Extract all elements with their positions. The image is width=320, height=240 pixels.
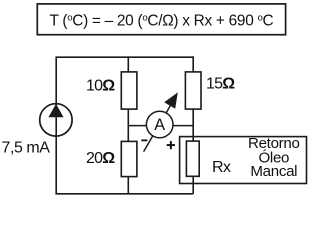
label 20 ohm (86, 150, 115, 167)
wire ammeter left (128, 125, 148, 127)
svg-text:T (oC) = – 20 (oC/Ω) x Rx + 69: T (oC) = – 20 (oC/Ω) x Rx + 690 oC (50, 12, 274, 29)
resistor 20 ohm (121, 141, 137, 176)
svg-text:Mancal: Mancal (250, 163, 297, 180)
label 15 ohm (206, 76, 235, 93)
resistor 15 ohm (185, 72, 201, 109)
polarity minus (141, 139, 147, 141)
resistor Rx (186, 141, 199, 176)
label Retorno Oleo Mancal (248, 135, 300, 180)
svg-text:10Ω: 10Ω (86, 78, 115, 95)
ammeter A1 (146, 111, 173, 138)
ammeter needle arrowhead (164, 92, 178, 108)
resistor 10 ohm (121, 72, 137, 109)
ammeter needle (144, 105, 171, 152)
svg-text:A: A (154, 116, 165, 134)
wire left branch (127, 56, 129, 193)
wire outer loop (top, left, bottom) (56, 57, 193, 194)
formula box (37, 4, 285, 35)
label Rx (212, 159, 231, 176)
current source I1 7,5 mA (40, 104, 72, 136)
svg-text:20Ω: 20Ω (86, 150, 115, 167)
wire right branch (192, 56, 194, 193)
wire ammeter right (172, 125, 194, 127)
box Retorno Oleo Mancal (180, 137, 307, 184)
svg-text:Rx: Rx (212, 159, 231, 176)
polarity plus (167, 141, 175, 149)
svg-text:7,5 mA: 7,5 mA (2, 140, 51, 157)
label 10 ohm (86, 78, 115, 95)
label 7,5 mA (2, 140, 51, 157)
formula text T(C) = -20 (C/ohm) x Rx + 690 C (50, 12, 274, 29)
svg-text:15Ω: 15Ω (206, 76, 235, 93)
